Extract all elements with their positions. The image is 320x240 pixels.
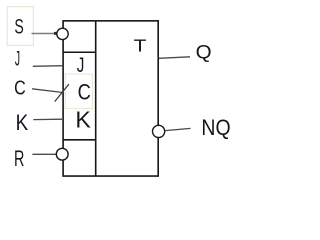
- divider line: [95, 21, 97, 176]
- svg-text:C: C: [78, 80, 91, 105]
- wire C: [32, 89, 64, 93]
- wire NQ: [165, 128, 191, 130]
- svg-text:T: T: [134, 36, 147, 56]
- wire S to bubble: [32, 33, 55, 35]
- wire Q: [159, 57, 190, 59]
- JCK section top line: [63, 51, 96, 53]
- svg-text:K: K: [75, 107, 91, 133]
- NQ inversion bubble: [153, 125, 165, 137]
- clock edge slash: [55, 84, 69, 102]
- wire J: [33, 65, 63, 68]
- svg-text:C: C: [14, 77, 26, 100]
- svg-text:R: R: [14, 146, 24, 171]
- S input label box: [7, 7, 33, 46]
- svg-text:K: K: [16, 110, 29, 135]
- flip-flop U1 body: [63, 21, 158, 176]
- svg-text:S: S: [14, 15, 23, 38]
- wire K: [33, 118, 62, 120]
- svg-text:Q: Q: [196, 42, 212, 64]
- wire R to bubble: [32, 153, 56, 155]
- C pin label light box: [65, 74, 92, 108]
- JCK section bottom line: [63, 139, 96, 141]
- svg-text:NQ: NQ: [201, 115, 230, 140]
- S inversion bubble: [57, 28, 68, 39]
- svg-text:J: J: [77, 53, 85, 77]
- wire endpoint square: [54, 32, 57, 35]
- svg-text:J: J: [15, 47, 20, 71]
- R inversion bubble: [56, 148, 68, 160]
